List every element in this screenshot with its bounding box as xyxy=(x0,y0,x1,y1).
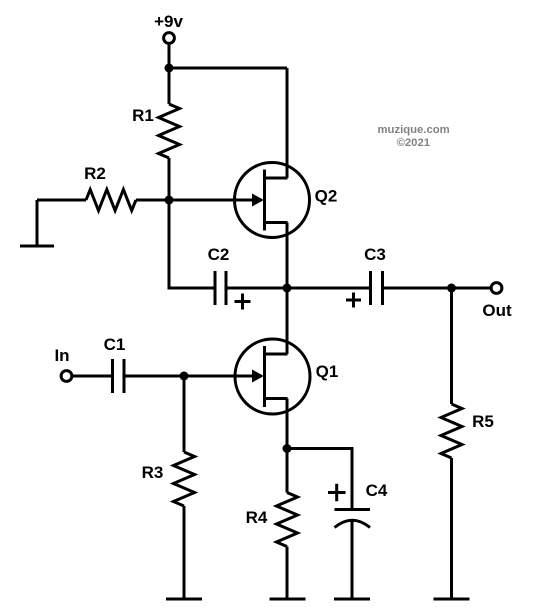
resistor R4 xyxy=(277,493,298,547)
wire C2 to junction xyxy=(228,287,288,290)
polarity plus of C4 xyxy=(328,484,346,502)
ground (R3) xyxy=(166,598,202,601)
ground (C4) xyxy=(334,598,370,601)
wire Q2 source to Q1 drain xyxy=(286,223,289,355)
junction source node xyxy=(283,444,292,453)
svg-text:R4: R4 xyxy=(246,508,268,527)
ground (R5) xyxy=(434,598,470,601)
wire Q1 gate xyxy=(184,375,253,378)
wire R1 bottom lead xyxy=(168,158,171,200)
transistor Q1 xyxy=(235,339,310,414)
wire R5 bottom lead xyxy=(450,458,453,599)
transistor Q2 xyxy=(235,163,310,238)
wire junction to C3 xyxy=(287,287,369,290)
capacitor C2 xyxy=(215,271,226,305)
svg-text:+9v: +9v xyxy=(154,12,183,31)
wire C3 to output node xyxy=(384,287,452,290)
svg-text:Q2: Q2 xyxy=(315,187,338,206)
wire R1 top lead xyxy=(168,68,171,104)
wire C1 to gate node xyxy=(126,375,185,378)
junction output node xyxy=(447,284,456,293)
wire R4 bottom lead xyxy=(286,547,289,600)
resistor R2 xyxy=(86,190,136,211)
wire R4 top lead xyxy=(286,449,289,493)
wire +9v terminal to top rail xyxy=(168,44,171,68)
svg-text:C2: C2 xyxy=(208,245,230,264)
wire R2 left lead xyxy=(37,199,86,202)
svg-text:R2: R2 xyxy=(84,164,106,183)
wire In to C1 xyxy=(72,375,111,378)
svg-text:Out: Out xyxy=(482,301,512,320)
Out terminal xyxy=(491,283,502,294)
capacitor C3 xyxy=(371,271,383,305)
wire from gate node down and right to C2 xyxy=(169,200,214,288)
node junction R1/R2/gate xyxy=(165,196,174,205)
wire Q2 gate xyxy=(169,199,253,202)
resistor R3 xyxy=(174,452,195,506)
svg-text:C4: C4 xyxy=(366,481,388,500)
wire top rail down to Q2 drain xyxy=(286,68,289,178)
In terminal xyxy=(61,371,72,382)
wire C4 bottom lead xyxy=(351,521,354,600)
junction Q2 source / C2 / C3 xyxy=(283,284,292,293)
wire source node to C4 xyxy=(287,449,352,509)
+9v supply terminal xyxy=(164,33,175,44)
svg-text:Q1: Q1 xyxy=(316,362,339,381)
wire R3 top lead xyxy=(183,376,186,452)
resistor R5 xyxy=(441,404,462,458)
wire R3 bottom lead xyxy=(183,506,186,599)
ground (left) xyxy=(20,245,54,248)
junction at +9v rail xyxy=(165,64,174,73)
wire R5 top lead xyxy=(450,288,453,404)
wire ground riser left xyxy=(36,200,39,246)
svg-text:C3: C3 xyxy=(364,245,386,264)
wire top rail horizontal xyxy=(169,67,287,70)
svg-text:muzique.com: muzique.com xyxy=(378,124,450,136)
svg-text:R3: R3 xyxy=(142,463,164,482)
junction C1/R3/gate Q1 xyxy=(180,372,189,381)
polarity plus of C2 xyxy=(235,294,251,310)
svg-text:R5: R5 xyxy=(472,412,494,431)
capacitor C4 xyxy=(335,510,371,528)
polarity plus of C3 xyxy=(346,293,361,308)
svg-text:R1: R1 xyxy=(132,106,154,125)
svg-text:©2021: ©2021 xyxy=(397,137,430,149)
svg-text:In: In xyxy=(54,346,69,365)
capacitor C1 xyxy=(113,359,125,393)
ground (R4) xyxy=(270,598,306,601)
wire Q1 source lead xyxy=(286,399,289,449)
resistor R1 xyxy=(159,104,180,158)
svg-text:C1: C1 xyxy=(104,335,126,354)
wire R2 right lead xyxy=(136,199,169,202)
wire to Out terminal xyxy=(452,287,492,290)
